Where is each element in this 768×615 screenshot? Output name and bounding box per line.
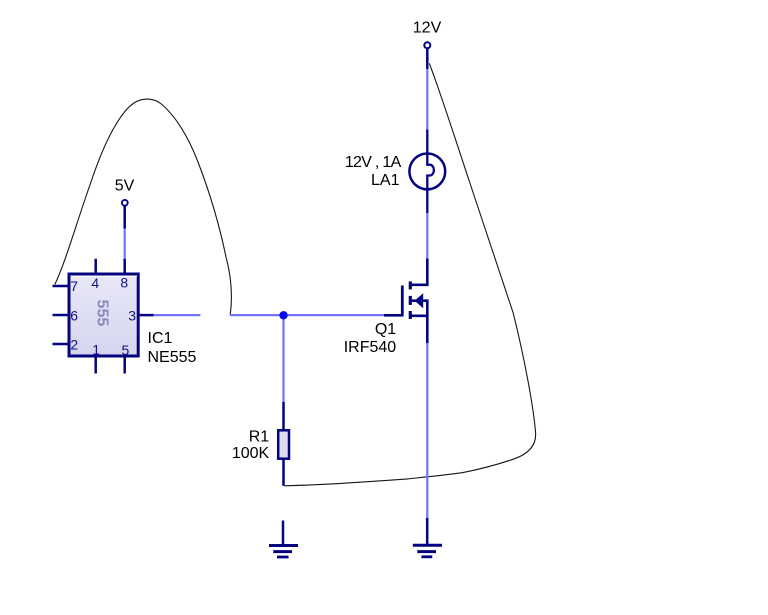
svg-text:LA1: LA1 — [371, 172, 400, 189]
svg-text:8: 8 — [120, 274, 128, 290]
svg-text:5: 5 — [122, 342, 130, 358]
svg-text:R1: R1 — [249, 429, 270, 446]
svg-text:12V: 12V — [413, 19, 442, 36]
svg-text:1: 1 — [92, 342, 100, 358]
svg-text:6: 6 — [70, 307, 78, 323]
svg-text:5V: 5V — [115, 178, 135, 195]
svg-text:IC1: IC1 — [148, 330, 173, 347]
svg-text:IRF540: IRF540 — [344, 339, 397, 356]
svg-text:2: 2 — [70, 336, 78, 352]
svg-text:555: 555 — [94, 300, 111, 327]
svg-text:Q1: Q1 — [375, 321, 396, 338]
svg-text:NE555: NE555 — [148, 349, 197, 366]
svg-text:100K: 100K — [232, 445, 270, 462]
svg-text:3: 3 — [128, 307, 136, 323]
svg-text:12V , 1A: 12V , 1A — [345, 154, 402, 171]
svg-text:4: 4 — [91, 275, 99, 291]
svg-text:7: 7 — [70, 278, 78, 294]
